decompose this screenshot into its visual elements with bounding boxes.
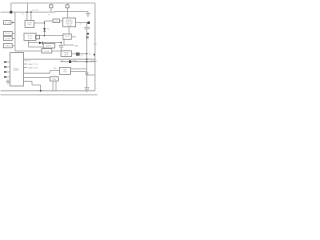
svg-text:DC12: DC12: [5, 33, 11, 35]
svg-text:UART_RX1: UART_RX1: [28, 66, 39, 69]
wire B6 right pins to x87: [71, 69, 87, 72]
block U2 top right: [63, 18, 76, 27]
wire vertical x44: [43, 21, 45, 36]
svg-text:D1: D1: [47, 29, 49, 31]
wire left bus x15: [14, 12, 16, 51]
connector J4: [3, 44, 12, 48]
wire frame bottom y94.9: [1, 94, 98, 96]
wire J4 to bus: [12, 45, 15, 47]
wire B4 to U2: [60, 20, 63, 22]
wire lower net y47: [29, 46, 44, 48]
ground symbol U1: [6, 79, 10, 84]
svg-text:C1: C1: [22, 13, 24, 15]
polarity mark J1: [12, 21, 14, 23]
capacitor C6 bottom x87: [85, 88, 90, 90]
svg-text:F103C: F103C: [13, 70, 19, 72]
block B3 converter: [24, 33, 36, 40]
svg-text:DC5V: DC5V: [5, 38, 11, 40]
component D3 dark blob x88 y22: [87, 22, 90, 25]
wire B8 bottom out: [64, 39, 74, 45]
wire x87 to border y75: [87, 74, 95, 76]
junction node x31: [30, 11, 31, 12]
svg-text:REG: REG: [28, 25, 32, 27]
block B4: [53, 19, 60, 23]
wire J3 to bus: [12, 37, 15, 39]
fuse F1 on x51: [50, 5, 53, 8]
junction node x11 y12: [10, 11, 13, 14]
svg-text:+12V IN: +12V IN: [31, 10, 39, 12]
svg-text:VBAT: VBAT: [72, 60, 78, 63]
block B6: [59, 68, 70, 75]
svg-text:PWR_G: PWR_G: [24, 61, 31, 63]
wire U1 pin y67.5: [24, 67, 28, 69]
svg-text:LDO: LDO: [54, 21, 58, 23]
wire U1 left pins: [6, 62, 11, 77]
wire U1 pin y73 to B6: [24, 70, 60, 73]
junction node x87 y61.7: [86, 61, 87, 62]
block B9a filter: [43, 43, 55, 48]
wire J2 to bus: [12, 32, 15, 34]
connector J3: [3, 37, 12, 41]
svg-text:XCVR: XCVR: [65, 36, 71, 38]
svg-text:GPIO: GPIO: [5, 46, 10, 48]
svg-text:B- OUT: B- OUT: [91, 61, 98, 63]
wire right border rail: [94, 3, 96, 91]
junction node x87 y59: [86, 59, 87, 60]
wire rail y61.7: [60, 61, 95, 63]
capacitor C7 polarized y61.7: [69, 60, 71, 63]
capacitor C2 on x87: [84, 27, 90, 29]
junction node x27: [26, 11, 27, 12]
wire stubs into B9a: [46, 42, 52, 43]
svg-text:BT1: BT1: [61, 60, 64, 62]
svg-text:A+: A+: [89, 53, 92, 56]
wire rail y59: [24, 58, 96, 60]
wire B3a stubs to rail: [27, 12, 31, 20]
block B3a regulator: [25, 21, 34, 28]
wire B3 drop x28.5: [28, 40, 30, 47]
wire U2 bottom to B8: [68, 27, 70, 34]
wire vertical x51: [50, 3, 52, 12]
diode D4 on B5 wire: [76, 53, 80, 56]
wire VIN rail y12: [1, 10, 89, 13]
wire rail y35.6: [40, 35, 64, 37]
capacitor C4 x61: [59, 42, 64, 50]
block B5: [61, 51, 72, 57]
block B7 crystal: [50, 77, 58, 81]
wire vertical x11: [10, 3, 12, 12]
wire vertical x67: [66, 3, 68, 18]
IC U1 main: [10, 53, 24, 87]
svg-text:5V: 5V: [80, 23, 83, 25]
svg-text:ANT: ANT: [72, 36, 77, 39]
svg-text:EMI FL: EMI FL: [46, 46, 51, 48]
wire gnd rail y90.8: [1, 90, 96, 92]
junction node x41 gnd rail: [40, 90, 42, 92]
svg-text:UART_TX1: UART_TX1: [28, 63, 39, 66]
inductor L2 on x87: [86, 36, 89, 38]
junction node x44 y23: [44, 22, 45, 23]
wire top rail: [11, 2, 95, 4]
pin tick marks U1 left: [4, 61, 6, 77]
connector J2: [3, 31, 12, 35]
svg-text:SCL: SCL: [54, 76, 58, 78]
junction node x44 y35.6: [44, 35, 45, 36]
svg-text:SIG: SIG: [75, 45, 79, 47]
svg-text:R9: R9: [81, 56, 83, 58]
wire diode net y42.4: [29, 41, 62, 43]
svg-text:F1: F1: [48, 15, 50, 17]
svg-text:SDA: SDA: [53, 67, 57, 70]
diode D5 arrow: [39, 42, 42, 45]
wire J1 to bus: [11, 22, 15, 24]
connector J1: [4, 21, 11, 25]
wire rail y51: [15, 50, 61, 52]
diode D1 on x44: [43, 28, 46, 31]
wire vertical x27: [26, 3, 28, 12]
wire U1 pin y81 down to gnd rail: [24, 81, 41, 91]
svg-text:XTAL: XTAL: [52, 78, 56, 81]
junction node x87 y54: [86, 53, 87, 54]
wire U2 right to x87: [76, 21, 87, 23]
tick right border y44: [94, 43, 97, 45]
fuse F2 on x67: [66, 5, 69, 8]
wire U1 pin y64: [24, 63, 28, 65]
junction node x61 y35.6: [61, 42, 62, 43]
block B9b filter: [42, 49, 52, 53]
svg-text:AC IN: AC IN: [5, 21, 11, 24]
wire B7 legs: [53, 81, 56, 91]
block B8: [63, 34, 71, 39]
node marker y54 right: [94, 54, 96, 56]
wire U1 pin y77.5 to B7: [24, 77, 51, 79]
transistor Q1: [36, 35, 40, 39]
wire B5 right to x87: [72, 53, 87, 55]
capacitor C5 ticks x87: [85, 73, 88, 74]
capacitor C1 top right: [86, 11, 90, 16]
wire B3a to vertical x44: [34, 21, 53, 23]
wire vertical rail x87: [86, 22, 88, 92]
diode D2 on x87: [87, 33, 89, 35]
